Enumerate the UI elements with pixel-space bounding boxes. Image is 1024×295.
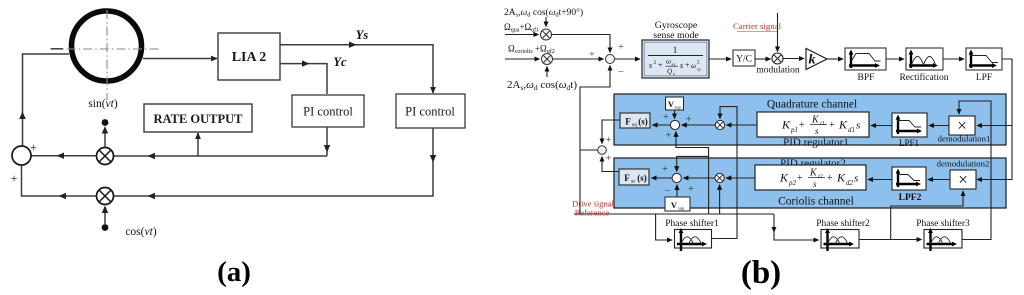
svg-text:Q: Q — [667, 68, 672, 76]
svg-text:+: + — [662, 164, 668, 175]
Fsq(s) box — [620, 113, 650, 128]
svg-text:s: s — [815, 126, 819, 136]
multiplier circle 2 — [97, 188, 114, 205]
arrowhead on Yc wire — [302, 60, 310, 66]
demodulation1 box — [949, 116, 975, 135]
Y/C box — [733, 50, 755, 66]
arrowhead down on PI2 wire — [430, 155, 436, 163]
svg-text:+: + — [797, 173, 803, 184]
svg-text:modulation: modulation — [756, 66, 800, 76]
svg-text:LPF1: LPF1 — [899, 138, 919, 148]
wire gyro to Y/C — [709, 58, 731, 60]
wire PID1 to quad multiplier — [727, 124, 758, 126]
main summing circle — [606, 55, 615, 64]
LPF2 block — [892, 167, 926, 190]
LIA 2 box — [218, 33, 280, 80]
gyroscope sense mode block — [642, 40, 709, 78]
svg-text:Yc: Yc — [333, 55, 347, 69]
svg-text:d1: d1 — [848, 126, 855, 134]
svg-text:sq: sq — [632, 122, 637, 128]
wire Vsup1 down into quad summing — [674, 110, 676, 119]
left summing circle — [598, 146, 607, 155]
LPF1 block — [892, 113, 927, 137]
wire carrier into multiplier A — [545, 17, 547, 27]
svg-text:LPF2: LPF2 — [899, 193, 922, 203]
svg-text:(s): (s) — [637, 173, 647, 183]
svg-text:K: K — [811, 115, 820, 126]
svg-text:+: + — [686, 115, 692, 126]
svg-text:demodulation1: demodulation1 — [938, 134, 991, 144]
amplifier k triangle — [806, 49, 827, 70]
svg-text:p2: p2 — [788, 179, 797, 187]
wire cos up into multiplier B — [546, 67, 548, 78]
svg-text:k: k — [809, 53, 816, 68]
svg-text:ω: ω — [691, 62, 696, 70]
wire multiplier1 to summing circle — [32, 155, 97, 157]
wire horizontal to multiplier 1 — [114, 155, 328, 157]
PI control box 1 — [292, 95, 364, 127]
wire phase shifter1 output up to quad multiplier hook — [712, 107, 738, 239]
svg-text:cos(vt): cos(vt) — [125, 226, 156, 238]
sin node dot — [102, 119, 109, 126]
wire Fsc to left summing — [602, 157, 619, 172]
svg-text:+: + — [685, 61, 690, 70]
svg-text:(s): (s) — [638, 117, 648, 127]
wire summing to gyroscope block — [615, 58, 641, 60]
svg-text:Phase shifter1: Phase shifter1 — [665, 218, 719, 229]
coriolis multiplier — [715, 173, 724, 182]
quad summing circle — [670, 120, 679, 129]
wire up into RATE OUTPUT — [197, 133, 199, 156]
wire continuation down to demodulation2 — [977, 126, 1012, 180]
svg-text:Quadrature channel: Quadrature channel — [767, 99, 857, 111]
drive tap into coriolis summing top — [677, 156, 709, 171]
svg-text:(b): (b) — [741, 255, 781, 291]
resonator circle — [72, 11, 142, 81]
svg-text:1: 1 — [673, 45, 678, 55]
svg-text:+: + — [827, 173, 833, 184]
quadrature channel band — [614, 94, 1006, 145]
svg-text:i2: i2 — [818, 174, 823, 180]
wire phase shifter3 output up into demodulation1 hook — [959, 101, 991, 240]
wire from summing circle down to multiplier2 row — [22, 165, 97, 196]
svg-text:sense mode: sense mode — [653, 30, 699, 41]
svg-text:Y/C: Y/C — [736, 55, 752, 65]
svg-text:+: + — [11, 171, 18, 185]
crosshair vertical dash-dot — [106, 10, 108, 100]
svg-text:p1: p1 — [790, 126, 798, 134]
multiplier B — [542, 54, 553, 65]
svg-text:Rectification: Rectification — [899, 72, 948, 83]
svg-text:LPF: LPF — [976, 73, 992, 83]
svg-text:+: + — [30, 140, 37, 154]
svg-text:+: + — [606, 154, 612, 165]
carrier wire down into modulation — [777, 13, 779, 52]
svg-text:+: + — [658, 61, 663, 70]
wire LPF down right side to demodulation1 — [977, 59, 1012, 126]
tap from PS2 wire up into demodulation2 — [891, 191, 963, 240]
wire coriolis multiplier to coriolis summing — [684, 177, 716, 179]
svg-text:Phase shifter3: Phase shifter3 — [916, 218, 970, 229]
wire left summing output to feedback vertical — [580, 149, 598, 151]
arrowhead into summing circle — [57, 153, 65, 159]
coriolis channel band — [614, 158, 1006, 208]
svg-text:s: s — [854, 173, 858, 185]
svg-text:+: + — [606, 135, 612, 146]
arrowhead on Ys wire — [349, 42, 357, 48]
svg-text:+: + — [589, 50, 595, 61]
Vsup2 box — [665, 197, 690, 211]
arrowhead left on wire to multiplier2 — [148, 193, 156, 199]
quad multiplier — [715, 120, 724, 129]
svg-text:×: × — [957, 116, 967, 135]
arrowhead toward summing circle on lower wire — [59, 193, 67, 199]
rectification block — [906, 48, 943, 70]
coriolis summing circle — [672, 173, 681, 182]
svg-text:K: K — [781, 118, 791, 132]
svg-text:sc: sc — [631, 179, 636, 185]
svg-text:s: s — [856, 120, 860, 132]
wire PID2 to coriolis multiplier — [726, 177, 755, 179]
svg-text:+: + — [829, 120, 835, 131]
phase shifter2 block — [821, 228, 859, 251]
PI control box 2 — [396, 94, 465, 128]
svg-text:demodulation2: demodulation2 — [937, 159, 990, 169]
svg-text:ω: ω — [666, 58, 671, 66]
svg-text:F: F — [625, 117, 631, 127]
wire quad multiplier to quad summing — [682, 124, 716, 126]
phase shifter1 block — [675, 228, 712, 251]
svg-text:Phase shifter2: Phase shifter2 — [816, 218, 870, 229]
svg-text:F: F — [624, 173, 630, 183]
wire into multiplier A — [505, 34, 539, 36]
wire multiplier A to main summing top — [552, 35, 611, 53]
wire phase shifter2 to phase shifter3 — [859, 239, 922, 241]
svg-text:PI control: PI control — [303, 105, 353, 119]
drive tap up into coriolis multiplier — [719, 185, 721, 214]
multiplier A — [541, 29, 552, 40]
multiplier circle 1 — [97, 148, 114, 165]
svg-text:Reference: Reference — [575, 208, 610, 218]
svg-text:d2: d2 — [846, 179, 854, 187]
drive tap up to quad summing bottom — [676, 132, 709, 214]
svg-text:sin(vt): sin(vt) — [88, 98, 118, 110]
wire Yc from LIA2 down to PI control 1 — [280, 64, 327, 94]
svg-text:s: s — [680, 61, 683, 70]
wire PI control1 down — [326, 127, 328, 156]
svg-text:V: V — [671, 200, 678, 210]
svg-text:(a): (a) — [217, 256, 251, 288]
wire BPF to rectification — [886, 58, 904, 60]
crosshair horizontal dash-dot — [50, 48, 160, 50]
svg-text:Carrier signal: Carrier signal — [733, 21, 782, 31]
drive drop to phase shifter2 with down arrow — [773, 214, 775, 232]
phase shifter3 block — [924, 228, 962, 251]
wire quad summing to Fsq — [653, 124, 671, 126]
wire feedback up-left into resonator — [23, 54, 70, 146]
cos wire with up arrowhead — [104, 207, 106, 224]
svg-text:Ys: Ys — [356, 28, 369, 42]
svg-text:K: K — [838, 118, 848, 132]
svg-text:+: + — [799, 120, 805, 131]
arrowhead down on PI1 wire — [324, 145, 330, 153]
cos node dot — [102, 224, 109, 231]
wire PI control2 down — [114, 128, 434, 196]
drive reference line — [574, 213, 774, 215]
LPF block — [966, 48, 1002, 70]
svg-text:+: + — [666, 131, 672, 142]
wire LPF1 to PID regulator1 — [871, 125, 892, 127]
BPF block — [845, 48, 886, 70]
svg-text:i1: i1 — [820, 121, 825, 127]
arrowhead left on wire to multiplier1 — [148, 153, 156, 159]
sin wire with up arrowhead — [104, 131, 106, 148]
svg-text:+: + — [663, 112, 669, 123]
svg-text:×: × — [958, 170, 968, 189]
wire demodulation2 to LPF2 — [928, 179, 950, 181]
phase shifter1 drop wire — [656, 214, 672, 240]
wire Fsq to left summing — [602, 120, 620, 144]
svg-text:2: 2 — [654, 60, 657, 66]
wire LPF2 to PID2 — [868, 179, 892, 181]
demodulation2 box — [950, 170, 976, 189]
modulation multiplier — [772, 53, 783, 64]
RATE OUTPUT box — [144, 104, 252, 132]
svg-text:−: − — [665, 186, 671, 197]
svg-text:s: s — [813, 179, 817, 189]
minus sign at resonator input — [51, 48, 63, 50]
wire amp to BPF — [827, 58, 843, 60]
wire coriolis summing to Fsc — [652, 177, 673, 179]
PID regulator1 box — [757, 112, 869, 137]
wire demodulation1 to LPF1 — [929, 125, 949, 127]
wire multiplier B to main summing — [553, 58, 604, 60]
svg-text:LIA 2: LIA 2 — [232, 50, 267, 65]
summing circle — [12, 146, 31, 165]
svg-text:RATE OUTPUT: RATE OUTPUT — [153, 112, 243, 126]
svg-text:BPF: BPF — [858, 73, 875, 83]
svg-text:−: − — [618, 66, 624, 78]
wire into multiplier B — [505, 58, 540, 60]
svg-text:sup: sup — [675, 105, 682, 110]
svg-text:PI control: PI control — [405, 105, 455, 119]
wire rectification to LPF — [943, 58, 964, 60]
svg-text:K: K — [779, 171, 789, 185]
svg-text:s: s — [649, 61, 652, 70]
wire resonator to LIA2 — [143, 58, 217, 60]
svg-text:+: + — [618, 42, 624, 53]
wire Vsup2 up into coriolis summing — [676, 185, 678, 197]
svg-text:+: + — [688, 184, 694, 195]
wire Y/C to modulation — [755, 58, 771, 60]
feedback wire up into main summing bottom — [580, 66, 610, 215]
svg-text:Coriolis channel: Coriolis channel — [778, 196, 854, 208]
svg-text:K: K — [836, 171, 846, 185]
arrowhead up on feedback wire — [19, 112, 26, 120]
svg-text:K: K — [809, 168, 818, 179]
wire Ys from LIA2 to right PI control — [280, 45, 433, 93]
Vsup1 box — [666, 97, 684, 110]
PID regulator2 box — [755, 165, 866, 190]
svg-text:PID regulator1: PID regulator1 — [783, 137, 849, 149]
Fsc(s) box — [619, 169, 649, 185]
svg-text:sup: sup — [678, 206, 685, 211]
wire modulation to amplifier — [783, 58, 804, 60]
